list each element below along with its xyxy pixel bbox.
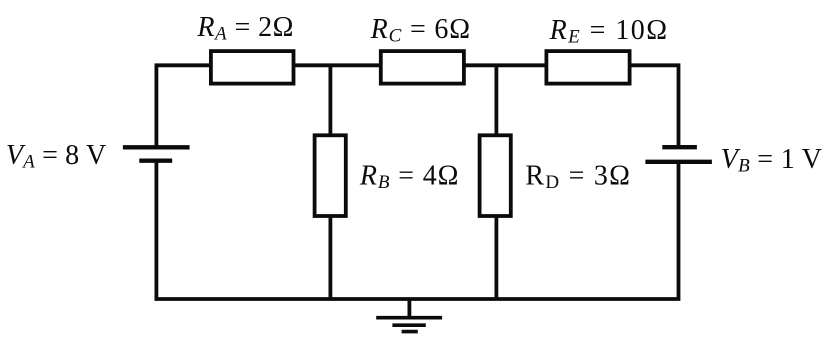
svg-text:RC = 6Ω: RC = 6Ω	[370, 14, 471, 47]
resistor RA	[211, 51, 294, 84]
resistor RE	[546, 51, 629, 84]
svg-text:RB = 4Ω: RB = 4Ω	[359, 161, 459, 194]
ground	[376, 299, 442, 332]
wire branch RB top	[328, 65, 332, 135]
wire top segment: RE to right rail corner	[630, 65, 679, 147]
svg-text:RE = 10Ω: RE = 10Ω	[549, 15, 669, 48]
wire branch RB bottom	[328, 216, 332, 299]
wire branch RD top	[494, 65, 498, 135]
wire branch RD bottom	[494, 216, 498, 299]
wire bottom rail with left and right risers	[156, 161, 678, 299]
battery VA	[123, 147, 190, 160]
resistor RD	[480, 135, 511, 216]
svg-text:RA = 2Ω: RA = 2Ω	[196, 12, 293, 45]
wire top segment: left rail corner to RA	[156, 65, 211, 147]
svg-text:VA = 8 V: VA = 8 V	[6, 140, 106, 173]
resistor RB	[315, 135, 346, 216]
svg-text:VB = 1 V: VB = 1 V	[721, 144, 823, 177]
resistor RC	[381, 51, 464, 84]
wire top segment: RC to RE	[464, 63, 547, 67]
battery VB	[645, 147, 712, 162]
svg-text:RD = 3Ω: RD = 3Ω	[525, 161, 631, 194]
wire top segment: RA to RC	[294, 63, 381, 67]
